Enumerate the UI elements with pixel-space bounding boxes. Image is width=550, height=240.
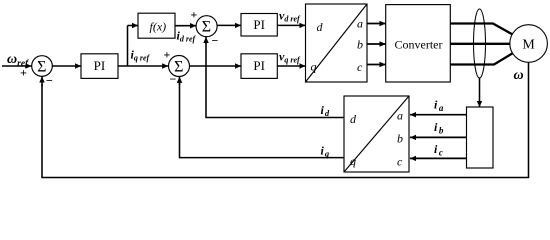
transform block abc to dq	[344, 96, 409, 172]
PI controller PI1	[81, 54, 118, 79]
phase wire b converter to motor	[450, 43, 510, 45]
svg-text:d: d	[317, 20, 324, 34]
svg-text:PI: PI	[94, 58, 106, 73]
wire c to converter	[367, 64, 386, 66]
wire omega feedback motor to S1	[42, 62, 529, 177]
svg-text:ω: ω	[514, 68, 524, 83]
wire i_q feedback to S2	[180, 83, 345, 158]
summer S2	[169, 56, 190, 77]
svg-text:c: c	[397, 155, 403, 169]
wire i_a to abc-dq block	[410, 114, 467, 116]
wire S1 to PI1	[52, 65, 81, 67]
wire PI3 to dq-abc block (v_q ref)	[278, 65, 306, 67]
svg-text:+: +	[164, 48, 171, 62]
svg-text:c: c	[357, 60, 363, 74]
wire a to converter	[367, 23, 386, 25]
wire branch up to f(x)	[127, 26, 129, 67]
svg-text:d: d	[350, 112, 357, 126]
svg-text:+: +	[191, 8, 198, 22]
phase wire a converter to motor	[450, 24, 512, 35]
phase wire c converter to motor	[450, 53, 512, 64]
svg-text:id: id	[321, 103, 330, 118]
wire PI2 to dq-abc block (v_d ref)	[277, 24, 305, 26]
svg-text:a: a	[357, 17, 363, 31]
wire omega_ref input	[2, 65, 32, 67]
svg-text:a: a	[397, 109, 403, 123]
svg-text:vq ref: vq ref	[279, 50, 301, 65]
svg-text:Converter: Converter	[395, 38, 443, 52]
summer S1	[32, 56, 53, 77]
svg-text:−: −	[46, 73, 53, 87]
current measurement box	[467, 107, 494, 168]
svg-text:vd ref: vd ref	[279, 9, 301, 24]
svg-text:M: M	[522, 38, 535, 53]
wire b to converter	[367, 43, 386, 45]
svg-text:ib: ib	[434, 120, 444, 136]
svg-text:b: b	[397, 132, 403, 146]
wire ellipse to current measure box	[479, 78, 481, 107]
wire f(x) to S3	[175, 25, 196, 27]
svg-text:PI: PI	[253, 17, 265, 32]
wire i_c to abc-dq block	[410, 157, 467, 159]
svg-text:iq ref: iq ref	[131, 48, 151, 63]
function block f(x)	[138, 13, 175, 38]
summer S3	[196, 16, 217, 37]
svg-text:+: +	[20, 66, 27, 80]
svg-text:ia: ia	[434, 98, 444, 114]
svg-text:q: q	[311, 59, 317, 73]
wire PI1 to S2 (i_q ref)	[118, 65, 168, 67]
diagonal of abc-dq block	[344, 96, 409, 172]
svg-text:iq: iq	[321, 144, 330, 159]
converter block	[386, 5, 451, 82]
svg-text:f(x): f(x)	[150, 20, 167, 34]
transform block dq to abc	[306, 4, 368, 82]
svg-text:id ref: id ref	[177, 29, 197, 44]
svg-text:Σ: Σ	[202, 19, 211, 36]
svg-text:b: b	[357, 38, 363, 52]
wire i_b to abc-dq block	[410, 136, 467, 138]
svg-text:ic: ic	[434, 142, 443, 158]
PI controller PI3	[241, 54, 277, 79]
svg-text:−: −	[212, 34, 219, 48]
svg-text:−: −	[170, 72, 177, 86]
diagonal of dq-abc block	[306, 4, 368, 82]
svg-text:q: q	[350, 154, 356, 168]
wire S3 to PI2	[217, 24, 241, 26]
wire S2 to PI3	[190, 65, 242, 67]
svg-text:PI: PI	[253, 58, 265, 73]
current sensor ellipse	[474, 9, 486, 78]
motor M	[510, 25, 548, 63]
PI controller PI2	[241, 14, 277, 37]
wire i_d feedback to S3	[206, 42, 344, 118]
